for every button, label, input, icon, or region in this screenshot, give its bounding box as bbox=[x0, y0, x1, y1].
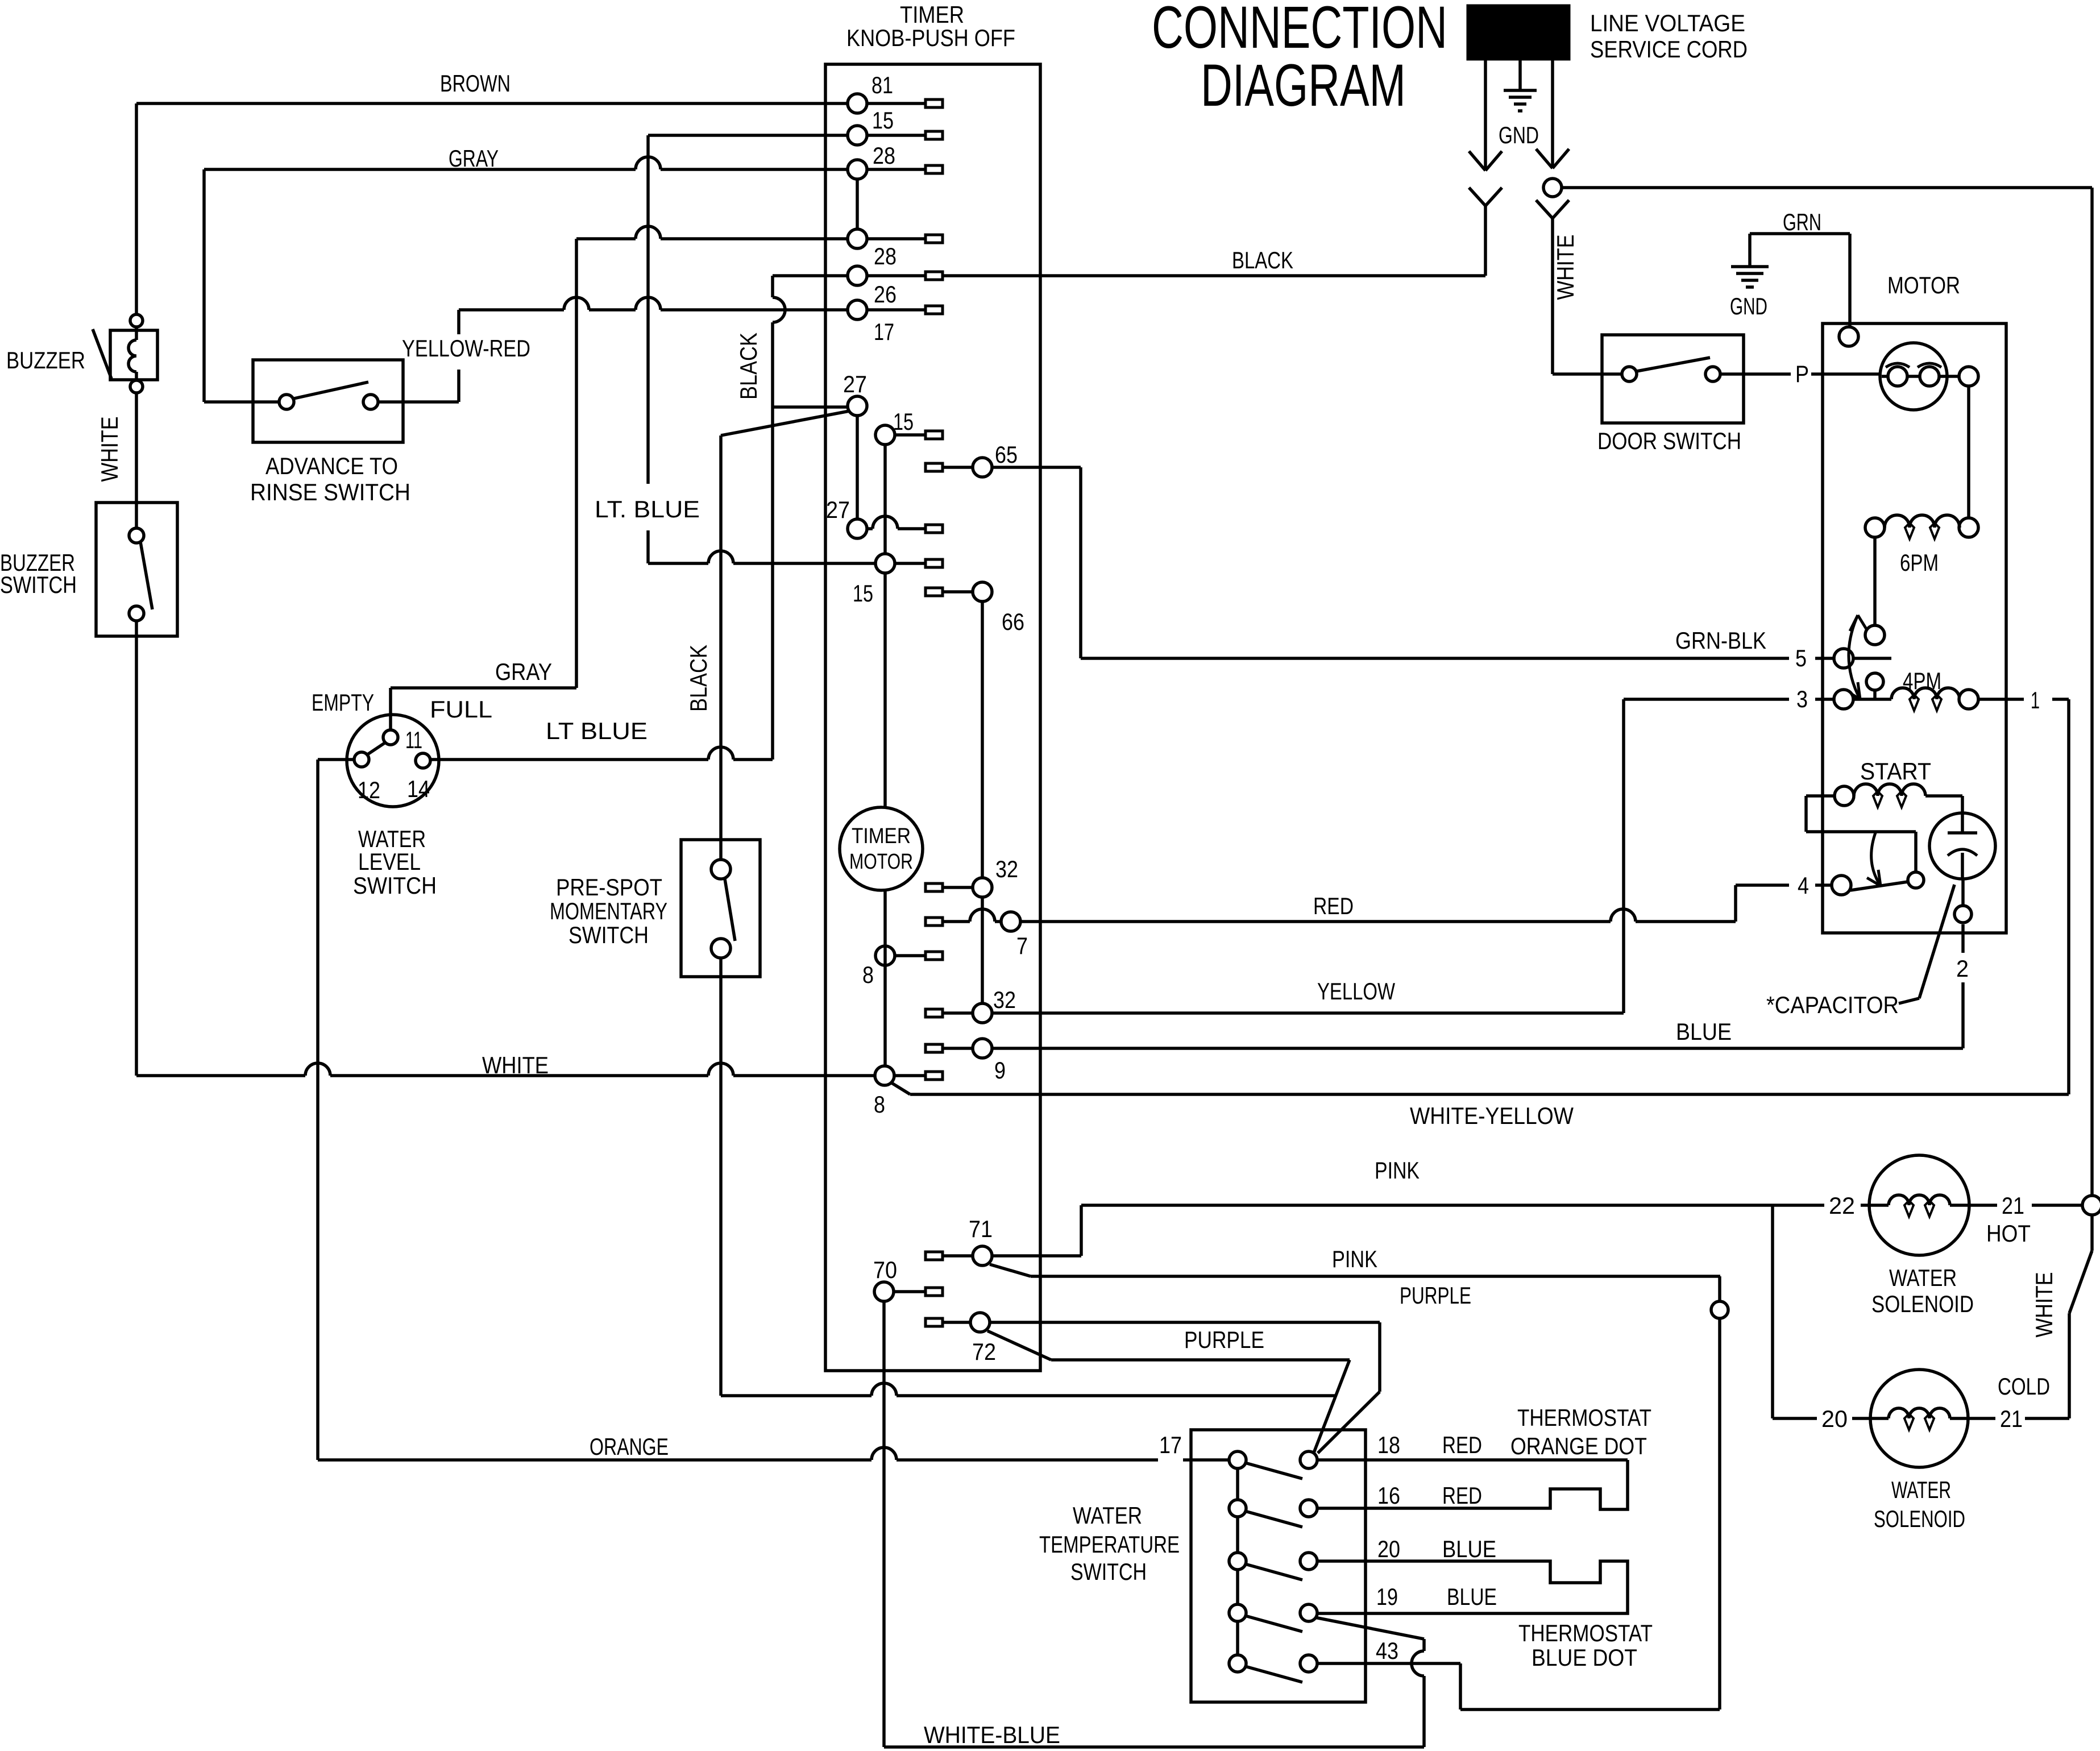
svg-text:ORANGE: ORANGE bbox=[590, 1433, 669, 1460]
svg-text:LEVEL: LEVEL bbox=[358, 848, 421, 875]
svg-text:WHITE: WHITE bbox=[2031, 1272, 2057, 1338]
svg-text:BLUE: BLUE bbox=[1447, 1583, 1497, 1610]
svg-text:RED: RED bbox=[1442, 1431, 1482, 1458]
svg-text:DOOR SWITCH: DOOR SWITCH bbox=[1597, 428, 1741, 454]
svg-text:43: 43 bbox=[1376, 1637, 1398, 1664]
svg-text:COLD: COLD bbox=[1998, 1373, 2050, 1400]
svg-text:2: 2 bbox=[1956, 955, 1969, 982]
svg-text:RINSE SWITCH: RINSE SWITCH bbox=[250, 479, 410, 505]
svg-text:12: 12 bbox=[358, 777, 380, 803]
svg-text:72: 72 bbox=[972, 1338, 996, 1365]
svg-text:70: 70 bbox=[873, 1256, 897, 1283]
svg-text:17: 17 bbox=[1159, 1431, 1182, 1458]
svg-text:DIAGRAM: DIAGRAM bbox=[1201, 52, 1406, 119]
svg-text:PURPLE: PURPLE bbox=[1400, 1282, 1471, 1309]
svg-text:RED: RED bbox=[1442, 1482, 1482, 1509]
svg-text:YELLOW-RED: YELLOW-RED bbox=[402, 335, 530, 362]
svg-text:8: 8 bbox=[874, 1091, 885, 1118]
svg-text:TEMPERATURE: TEMPERATURE bbox=[1039, 1531, 1180, 1558]
svg-text:15: 15 bbox=[872, 107, 894, 134]
svg-text:26: 26 bbox=[874, 281, 897, 308]
svg-text:7: 7 bbox=[1016, 932, 1028, 959]
svg-text:81: 81 bbox=[871, 72, 893, 98]
svg-text:21: 21 bbox=[2002, 1192, 2024, 1219]
svg-text:MOMENTARY: MOMENTARY bbox=[550, 898, 667, 924]
svg-text:P: P bbox=[1795, 360, 1809, 387]
svg-text:EMPTY: EMPTY bbox=[312, 689, 374, 716]
svg-text:28: 28 bbox=[874, 243, 897, 269]
svg-text:THERMOSTAT: THERMOSTAT bbox=[1517, 1404, 1651, 1431]
svg-text:BLACK: BLACK bbox=[735, 333, 762, 400]
svg-text:15: 15 bbox=[853, 580, 873, 607]
svg-text:KNOB-PUSH OFF: KNOB-PUSH OFF bbox=[846, 24, 1015, 51]
svg-text:TIMER: TIMER bbox=[900, 1, 964, 28]
svg-text:PINK: PINK bbox=[1375, 1157, 1420, 1184]
svg-text:WATER: WATER bbox=[1889, 1264, 1957, 1291]
svg-text:14: 14 bbox=[407, 775, 430, 802]
svg-text:BLUE DOT: BLUE DOT bbox=[1532, 1644, 1637, 1671]
svg-text:WHITE: WHITE bbox=[1552, 235, 1579, 300]
svg-text:GRAY: GRAY bbox=[449, 145, 499, 172]
svg-text:PURPLE: PURPLE bbox=[1184, 1326, 1264, 1353]
svg-text:GRAY: GRAY bbox=[495, 658, 552, 685]
svg-text:GND: GND bbox=[1499, 122, 1539, 148]
svg-text:WHITE-YELLOW: WHITE-YELLOW bbox=[1410, 1102, 1574, 1129]
svg-text:MOTOR: MOTOR bbox=[1887, 272, 1960, 298]
svg-text:ADVANCE TO: ADVANCE TO bbox=[265, 453, 398, 479]
svg-text:22: 22 bbox=[1829, 1192, 1855, 1219]
svg-text:WATER: WATER bbox=[1073, 1502, 1142, 1529]
svg-text:27: 27 bbox=[843, 371, 867, 397]
svg-text:TIMER: TIMER bbox=[852, 824, 911, 848]
svg-text:15: 15 bbox=[893, 408, 914, 435]
svg-text:19: 19 bbox=[1376, 1583, 1398, 1610]
svg-text:BLACK: BLACK bbox=[1232, 247, 1293, 273]
svg-text:28: 28 bbox=[873, 142, 895, 169]
svg-text:71: 71 bbox=[969, 1215, 993, 1242]
svg-text:GRN-BLK: GRN-BLK bbox=[1675, 627, 1766, 654]
svg-text:FULL: FULL bbox=[430, 696, 492, 723]
svg-text:18: 18 bbox=[1377, 1431, 1400, 1458]
svg-text:9: 9 bbox=[994, 1057, 1006, 1084]
svg-text:LINE VOLTAGE: LINE VOLTAGE bbox=[1590, 10, 1745, 36]
svg-text:THERMOSTAT: THERMOSTAT bbox=[1518, 1620, 1653, 1646]
svg-text:SERVICE CORD: SERVICE CORD bbox=[1590, 36, 1748, 63]
svg-text:16: 16 bbox=[1377, 1482, 1400, 1509]
svg-text:WATER: WATER bbox=[1891, 1476, 1951, 1503]
svg-text:MOTOR: MOTOR bbox=[849, 850, 913, 874]
svg-text:SWITCH: SWITCH bbox=[353, 872, 437, 899]
svg-text:66: 66 bbox=[1002, 608, 1024, 635]
svg-text:*CAPACITOR: *CAPACITOR bbox=[1766, 991, 1899, 1018]
svg-text:SOLENOID: SOLENOID bbox=[1871, 1291, 1974, 1317]
svg-text:GND: GND bbox=[1730, 293, 1767, 320]
svg-text:SWITCH: SWITCH bbox=[0, 571, 77, 598]
svg-text:ORANGE DOT: ORANGE DOT bbox=[1510, 1433, 1647, 1459]
svg-text:32: 32 bbox=[995, 856, 1018, 882]
svg-text:6PM: 6PM bbox=[1900, 549, 1939, 576]
svg-text:21: 21 bbox=[2000, 1405, 2023, 1432]
svg-text:BLUE: BLUE bbox=[1676, 1018, 1732, 1045]
svg-text:20: 20 bbox=[1377, 1536, 1400, 1562]
svg-text:17: 17 bbox=[874, 318, 894, 345]
svg-text:BUZZER: BUZZER bbox=[6, 347, 85, 374]
svg-text:LT. BLUE: LT. BLUE bbox=[595, 496, 700, 522]
svg-text:PINK: PINK bbox=[1332, 1246, 1377, 1272]
svg-text:BLUE: BLUE bbox=[1442, 1536, 1496, 1562]
svg-text:PRE-SPOT: PRE-SPOT bbox=[556, 874, 662, 901]
svg-text:27: 27 bbox=[826, 496, 850, 523]
svg-text:32: 32 bbox=[993, 986, 1016, 1013]
svg-text:1: 1 bbox=[2031, 687, 2040, 713]
svg-text:SWITCH: SWITCH bbox=[1070, 1558, 1147, 1585]
svg-text:WHITE: WHITE bbox=[96, 417, 123, 482]
svg-text:65: 65 bbox=[995, 441, 1018, 468]
svg-text:LT BLUE: LT BLUE bbox=[546, 717, 648, 744]
svg-text:4: 4 bbox=[1798, 872, 1809, 899]
svg-text:YELLOW: YELLOW bbox=[1317, 978, 1395, 1005]
svg-text:WHITE: WHITE bbox=[482, 1052, 549, 1078]
svg-text:RED: RED bbox=[1313, 893, 1354, 919]
svg-text:5: 5 bbox=[1795, 645, 1807, 671]
svg-text:CONNECTION: CONNECTION bbox=[1152, 0, 1447, 61]
svg-text:WHITE-BLUE: WHITE-BLUE bbox=[924, 1721, 1060, 1748]
svg-text:11: 11 bbox=[405, 727, 422, 753]
svg-text:20: 20 bbox=[1821, 1405, 1848, 1432]
svg-text:GRN: GRN bbox=[1783, 209, 1821, 235]
svg-text:SWITCH: SWITCH bbox=[568, 922, 649, 948]
svg-text:8: 8 bbox=[862, 961, 874, 988]
svg-text:BLACK: BLACK bbox=[685, 645, 712, 712]
svg-text:BROWN: BROWN bbox=[440, 70, 511, 97]
svg-text:3: 3 bbox=[1796, 686, 1808, 712]
svg-text:SOLENOID: SOLENOID bbox=[1874, 1505, 1965, 1532]
svg-text:START: START bbox=[1860, 758, 1931, 785]
svg-text:HOT: HOT bbox=[1986, 1220, 2031, 1247]
